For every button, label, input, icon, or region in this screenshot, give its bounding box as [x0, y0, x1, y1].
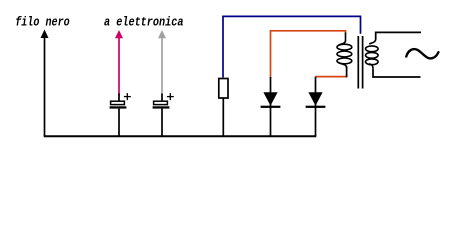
- wire: secondary bottom lead: [373, 70, 421, 78]
- AC source (sine symbol): [406, 49, 438, 58]
- wire: bottom ground bus: [44, 135, 317, 137]
- arrow "a elettronica" (magenta, up): [115, 30, 123, 96]
- transformer T1 primary winding: [337, 33, 352, 68]
- resistor R1: [219, 79, 228, 99]
- wire: C2 bottom lead: [161, 109, 163, 136]
- capacitor C2 (electrolytic, + top): [153, 93, 174, 109]
- arrow "filo nero" (black, up): [41, 30, 49, 137]
- arrow (gray, up): [158, 30, 166, 96]
- wire: orange net (D2 top to primary bottom): [316, 76, 347, 78]
- wire: C1 top lead: [118, 94, 120, 102]
- diode D1: [261, 77, 281, 136]
- wire: primary bottom stub: [346, 67, 348, 78]
- capacitor C1 (electrolytic, + top): [110, 93, 131, 109]
- wire: blue net (resistor top to transformer): [223, 16, 361, 77]
- transformer T1 secondary winding: [366, 39, 379, 70]
- wire: resistor bottom lead: [222, 98, 224, 136]
- svg-text:filo nero: filo nero: [15, 15, 70, 29]
- wire: C1 bottom lead: [118, 109, 120, 136]
- transformer T1 core: [358, 36, 362, 89]
- wire: orange net (D1 top to primary top): [271, 31, 346, 77]
- wire: secondary top lead: [376, 32, 421, 39]
- svg-text:a elettronica: a elettronica: [104, 15, 184, 29]
- diode D2: [306, 77, 326, 136]
- wire: C2 top lead: [161, 94, 163, 102]
